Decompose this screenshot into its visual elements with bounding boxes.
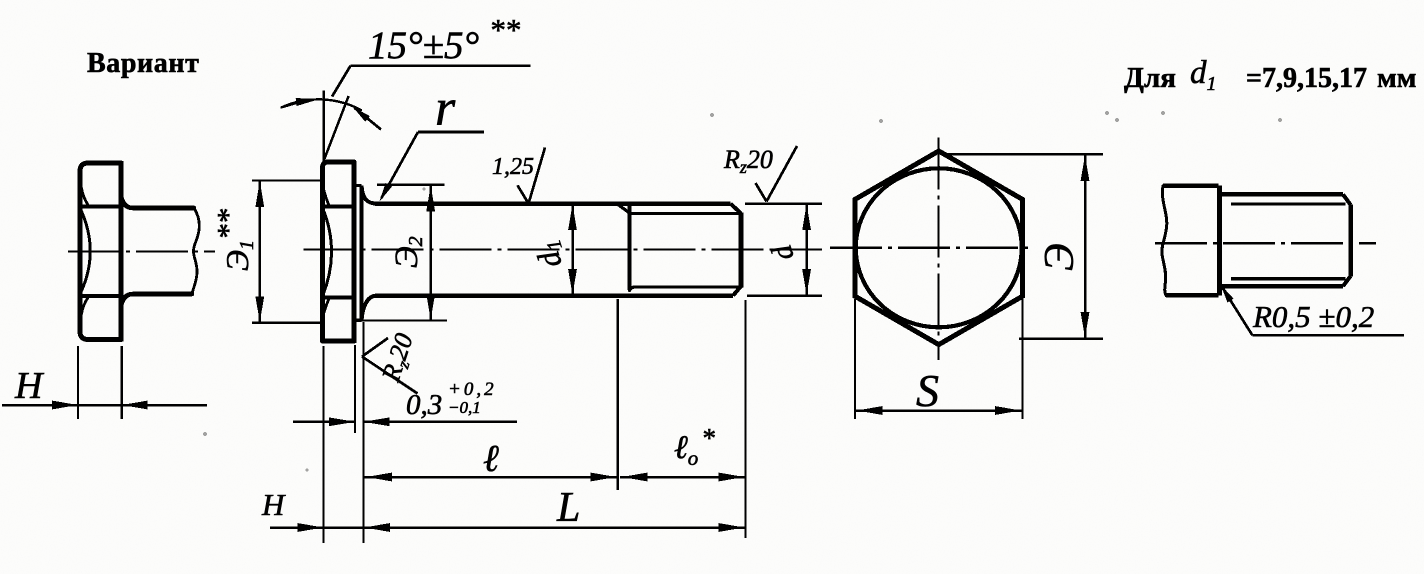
detail view: shank with break line: [1163, 183, 1219, 188]
variant view: flange stub outline: [121, 196, 194, 208]
detail view: end face and chamfers: [1348, 205, 1353, 277]
variant view: H extension lines: [77, 346, 79, 419]
callout 15 deg: right arrow: [355, 108, 382, 130]
dimension 0,3: extension lines: [354, 345, 356, 433]
dimension D2: dimension line: [429, 185, 432, 321]
callout 15 deg: slanted leg: [324, 96, 349, 160]
svg-text:H: H: [14, 365, 45, 407]
callout 15 deg: arc left arrowhead: [296, 98, 319, 106]
main view: fillet flange to shank: [362, 188, 377, 204]
svg-text:Rz20: Rz20: [723, 145, 773, 177]
svg-text:R0,5 ±0,2: R0,5 ±0,2: [1252, 299, 1374, 334]
detail view: thread root lines: [1231, 202, 1346, 205]
svg-text:15°±5°: 15°±5°: [368, 24, 479, 67]
svg-text:−0,1: −0,1: [448, 398, 481, 417]
variant view: hex head outline (side): [80, 163, 121, 340]
callout r: leader: [418, 131, 484, 134]
dimension 0,3: dimension line: [293, 421, 355, 424]
dimension l0: dimension line: [620, 476, 746, 479]
main view: shank end face and chamfer: [739, 213, 744, 288]
svg-text:L: L: [556, 485, 580, 531]
main view: shank outline: [375, 201, 731, 206]
svg-text:Э: Э: [1037, 243, 1083, 271]
main view: thread root lines: [630, 212, 740, 215]
svg-text:+0,2: +0,2: [448, 379, 497, 400]
variant view: head chamfer arcs: [81, 209, 91, 293]
main view: hex head outline: [323, 162, 355, 341]
surface mark Rz20 on bearing face (rotated): [362, 338, 388, 357]
extension line at thread runout (l / l0 boundary): [617, 299, 619, 490]
main view: flange (washer face): [360, 186, 364, 321]
dimension l0: extension line at thread end: [744, 300, 746, 538]
main view: thread runout boundary: [628, 205, 632, 291]
main view: head face divider lines: [323, 205, 355, 209]
scan speckles (decorative): [710, 113, 714, 117]
dimension d1: dimension line: [571, 204, 574, 296]
detail view: shoulder face: [1217, 186, 1222, 296]
svg-text:Для: Для: [1124, 62, 1176, 94]
dimension l: dimension line: [365, 476, 618, 479]
dimension d: dimension line: [805, 204, 808, 296]
svg-text:ℓ: ℓ: [483, 438, 499, 480]
svg-text:S: S: [916, 365, 939, 416]
callout 15 deg: vertical leg: [322, 91, 325, 163]
dimension D2: extension lines: [377, 184, 444, 186]
variant view: head face divider lines: [80, 205, 121, 209]
hex view: chamfer circle: [856, 168, 1022, 327]
svg-text:мм: мм: [1377, 62, 1417, 94]
hex view: hexagon outline: [855, 151, 1023, 345]
variant view: D1 dimension line: [259, 180, 262, 322]
dimension d: extension lines: [745, 202, 822, 204]
main view: head chamfer arcs: [323, 209, 332, 295]
detail view: center line: [1155, 242, 1376, 244]
callout 15 deg: angle arc: [282, 99, 362, 110]
surface mark Rz20 top: [756, 183, 767, 202]
dimension L and H: dimension line: [270, 526, 746, 529]
callout 15 deg: leader: [351, 64, 531, 67]
hex view: S dimension line: [855, 409, 1023, 412]
variant view: stub break line: [192, 208, 199, 294]
svg-text:1,25: 1,25: [492, 154, 534, 180]
svg-text:0,3: 0,3: [406, 389, 442, 421]
svg-text:Вариант: Вариант: [87, 48, 199, 79]
svg-text:r: r: [435, 80, 456, 137]
hex view: D dimension line: [1084, 154, 1087, 338]
svg-text:H: H: [261, 487, 286, 522]
main view: center line: [304, 248, 822, 250]
callout R0,5: leader: [1221, 285, 1234, 303]
hex view: center lines: [937, 138, 939, 360]
hex view: S extension lines: [854, 299, 856, 419]
svg-text:=7,9,15,17: =7,9,15,17: [1246, 63, 1367, 94]
hex view: D extension lines: [944, 153, 1103, 155]
variant view: center line: [68, 250, 215, 252]
surface mark 1,25: [518, 185, 529, 203]
variant view: H dimension line: [2, 404, 207, 407]
variant view: D1 extension lines: [252, 179, 324, 181]
svg-text:**: **: [489, 12, 521, 47]
detail view: thread crest lines: [1222, 192, 1344, 197]
